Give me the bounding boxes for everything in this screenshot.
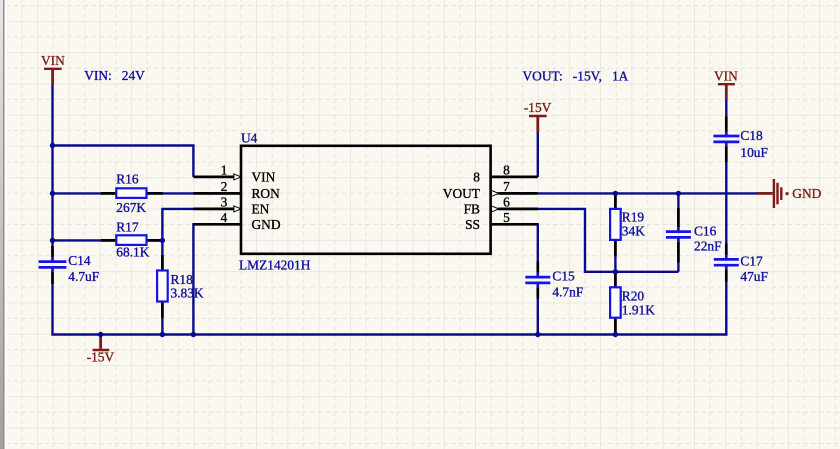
resistor R16 267K	[101, 172, 163, 215]
wire R20 column (FB node to rail)	[614, 272, 616, 335]
wire FB net: pin 6 right, down, to divider mid node	[490, 209, 678, 272]
svg-text:VOUT: VOUT	[443, 186, 480, 201]
junction node VIN col / R16 row	[50, 191, 55, 196]
capacitor C16 22nF	[666, 208, 722, 263]
svg-text:VIN: VIN	[714, 68, 738, 83]
wire right riser above C18	[725, 100, 727, 137]
wire SS pin 5 down through C15 to rail	[490, 224, 538, 277]
resistor R19 34K	[610, 193, 645, 256]
svg-text:GND: GND	[252, 217, 281, 232]
junction node rail / pin4 wire	[191, 332, 196, 337]
resistor R20 1.91K	[610, 272, 655, 335]
junction node VOUT row / C16	[676, 191, 681, 196]
svg-text:4: 4	[221, 210, 228, 225]
power port VIN top-right	[714, 68, 738, 99]
U4 pin 3 line (EN)	[193, 208, 234, 211]
capacitor C14 4.7uF	[39, 246, 100, 284]
svg-text:2: 2	[221, 179, 228, 194]
svg-text:8: 8	[503, 163, 510, 178]
svg-text:4.7uF: 4.7uF	[68, 269, 99, 284]
svg-text:R17: R17	[116, 220, 139, 235]
junction node rail / C15	[535, 332, 540, 337]
svg-text:6: 6	[503, 195, 510, 210]
wire C16 column	[677, 193, 679, 231]
svg-text:VIN: VIN	[252, 170, 276, 185]
wire from VIN column top junction to pin 1	[53, 146, 194, 177]
wire R17 row from VIN column	[53, 239, 163, 241]
svg-text:8: 8	[473, 170, 480, 185]
svg-text:1.91K: 1.91K	[622, 303, 655, 318]
resistor R18 3.83K	[157, 255, 204, 318]
svg-text:3: 3	[221, 195, 228, 210]
svg-text:LMZ14201H: LMZ14201H	[239, 258, 311, 273]
capacitor C18 10uF	[713, 117, 768, 163]
svg-text:C15: C15	[552, 269, 575, 284]
svg-text:34K: 34K	[622, 223, 645, 238]
pin 1 input triangle	[234, 174, 241, 180]
pin 7 output triangle	[492, 190, 499, 196]
svg-text:10uF: 10uF	[740, 145, 768, 160]
svg-text:VOUT: -15V, 1A: VOUT: -15V, 1A	[523, 69, 629, 84]
svg-text:R19: R19	[622, 209, 645, 224]
capacitor C17 47uF	[714, 244, 768, 285]
svg-text:C16: C16	[694, 223, 717, 238]
resistor R17 68.1K	[101, 220, 162, 260]
svg-text:EN: EN	[252, 202, 270, 217]
U4 pin 4 line (GND)	[193, 223, 241, 226]
svg-text:VIN: 24V: VIN: 24V	[84, 68, 145, 83]
wire R16 row into pin 2 (RON)	[53, 192, 242, 194]
U4 pin 8 line	[490, 176, 538, 179]
junction node FB mid node / R19-R20	[613, 269, 618, 274]
svg-text:7: 7	[503, 179, 510, 194]
power port -15V above pin 8	[524, 100, 552, 132]
junction node rail / R20	[613, 332, 618, 337]
wire pin 8 end up to -15V power port	[537, 116, 539, 177]
wire R19 column (VOUT node to FB node)	[614, 193, 616, 271]
junction node VOUT row / R19	[613, 191, 618, 196]
wire GND pin 4 down to -15V rail	[193, 224, 241, 334]
pin 6 output triangle	[492, 206, 499, 212]
svg-text:-15V: -15V	[87, 350, 115, 365]
junction node VIN col / top wire	[50, 143, 55, 148]
svg-text:SS: SS	[465, 217, 480, 232]
U4 pin 7 line (VOUT)	[499, 192, 538, 195]
svg-text:C14: C14	[68, 253, 91, 268]
svg-text:3.83K: 3.83K	[171, 286, 204, 301]
wire VOUT net row to GND symbol	[490, 192, 758, 194]
svg-text:C18: C18	[740, 128, 763, 143]
svg-text:RON: RON	[252, 186, 281, 201]
junction node R17 right / EN column	[160, 238, 165, 243]
svg-text:R16: R16	[116, 172, 139, 187]
pin 3 input triangle	[234, 206, 241, 212]
U4 pin 6 line (FB)	[499, 208, 538, 211]
svg-text:47uF: 47uF	[740, 269, 768, 284]
svg-text:R20: R20	[622, 288, 645, 303]
svg-text:VIN: VIN	[41, 53, 65, 68]
capacitor C15 4.7nF	[525, 262, 583, 300]
svg-text:267K: 267K	[116, 200, 146, 215]
power port VIN top-left	[41, 53, 65, 85]
svg-text:22nF: 22nF	[694, 238, 722, 253]
svg-text:68.1K: 68.1K	[116, 245, 149, 260]
power port -15V bottom rail	[87, 335, 115, 365]
svg-text:U4: U4	[241, 130, 258, 145]
svg-text:FB: FB	[464, 202, 480, 217]
svg-text:1: 1	[221, 163, 228, 178]
svg-text:5: 5	[503, 210, 510, 225]
wire right riser between C17 and C18	[725, 142, 727, 260]
svg-text:-15V: -15V	[524, 100, 552, 115]
junction node rail / R18	[160, 332, 165, 337]
wire VIN input bus: left column, bottom -15V rail, right column riser	[51, 84, 53, 262]
wire EN net: pin 3 to R17/R18 column down to rail	[162, 209, 241, 335]
U4 pin 2 line (RON)	[193, 192, 241, 195]
junction node VIN col / R17 row	[50, 238, 55, 243]
regulator IC U4 LMZ14201H body	[241, 146, 491, 254]
svg-text:C17: C17	[740, 253, 763, 268]
svg-text:GND: GND	[792, 186, 821, 201]
U4 pin 5 line (SS)	[490, 223, 538, 226]
junction node rail / -15V port	[98, 332, 103, 337]
U4 pin 1 line (VIN)	[193, 176, 234, 179]
power port GND earth symbol right	[758, 179, 822, 208]
svg-text:4.7nF: 4.7nF	[552, 285, 583, 300]
